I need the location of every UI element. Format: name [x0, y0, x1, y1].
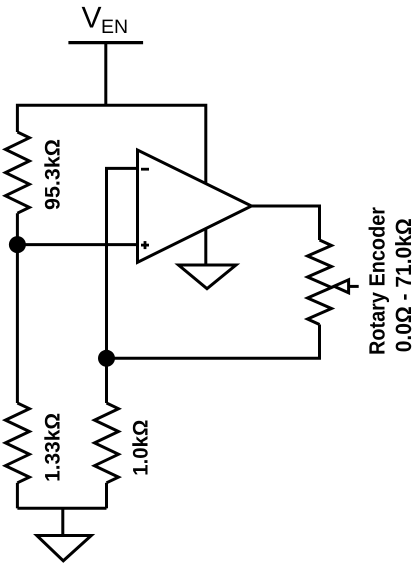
svg-text:Rotary Encoder: Rotary Encoder	[365, 207, 390, 355]
svg-text:V: V	[82, 2, 102, 35]
svg-text:95.3kΩ: 95.3kΩ	[42, 139, 65, 210]
svg-text:1.0kΩ: 1.0kΩ	[129, 420, 152, 476]
svg-text:0.0Ω - 71.0kΩ: 0.0Ω - 71.0kΩ	[391, 218, 415, 352]
svg-text:EN: EN	[101, 16, 128, 38]
svg-text:1.33kΩ: 1.33kΩ	[41, 413, 64, 482]
